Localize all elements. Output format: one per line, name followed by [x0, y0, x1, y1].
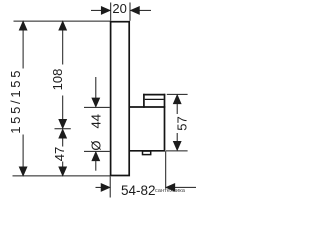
svg-text:Ø: Ø — [89, 141, 104, 151]
knob left face — [143, 94, 145, 108]
57 extension lines — [167, 93, 188, 95]
bottom baseline extension — [13, 175, 111, 177]
wall plate (escutcheon, side view) — [111, 22, 130, 176]
top extension line — [14, 20, 111, 22]
centerline mark — [55, 128, 71, 130]
knob right face — [164, 94, 166, 152]
dimension 47 line — [59, 129, 67, 138]
svg-text:44: 44 — [89, 114, 104, 128]
sleeve top edge — [129, 106, 165, 108]
svg-text:сантехника: сантехника — [155, 188, 185, 194]
dimension 54-82 line — [96, 186, 102, 188]
svg-text:47: 47 — [52, 147, 67, 161]
knob/sleeve bottom edge — [129, 150, 165, 152]
svg-text:108: 108 — [50, 69, 65, 91]
dimension 20 line — [91, 9, 102, 11]
diameter 44 extension lines — [84, 106, 110, 108]
dimension 108 line — [59, 21, 67, 30]
svg-text:20: 20 — [112, 1, 126, 16]
20 extension lines — [110, 3, 112, 21]
svg-text:155/155: 155/155 — [8, 68, 23, 134]
svg-text:54-82: 54-82 — [121, 183, 156, 198]
dimension Ø44 line — [95, 77, 97, 100]
svg-text:57: 57 — [174, 116, 189, 130]
knob top edge — [143, 94, 165, 96]
knob inner rim line — [145, 98, 164, 100]
dimension 57 line — [173, 95, 181, 104]
54-82 extension lines — [109, 177, 111, 198]
dimension 155/155 line — [19, 21, 27, 30]
tab under knob — [143, 151, 151, 155]
